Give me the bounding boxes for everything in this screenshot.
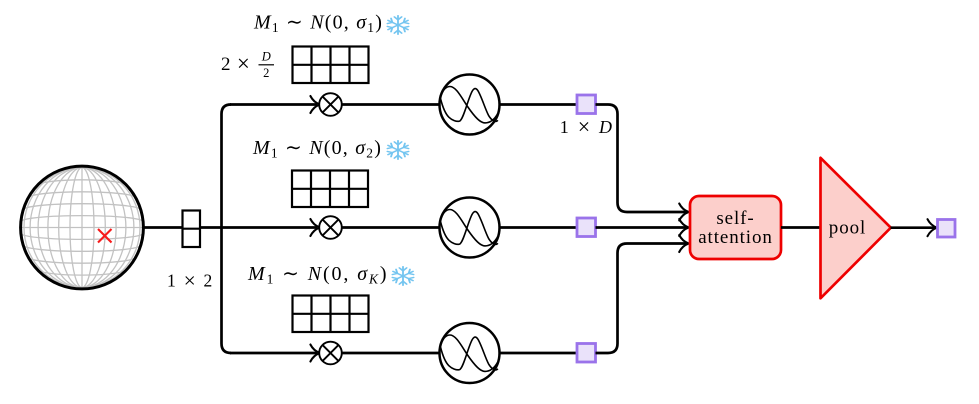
arrowhead into multiplier 2 [310, 219, 319, 236]
multiplier otimes 2 [319, 216, 342, 239]
snowflake 1 [387, 16, 408, 35]
feature square 1 [577, 95, 596, 114]
wire multiplier to sine node 2 [342, 226, 440, 229]
wire bottom branch up into attention [596, 244, 688, 354]
wire vertical bus with rounded corners [222, 105, 232, 354]
arrowhead into attention (middle) [679, 219, 688, 236]
wire sine node 3 to feature square 3 [500, 352, 577, 355]
self-attention block [690, 196, 781, 259]
svg-text:1 × 2: 1 × 2 [167, 269, 214, 293]
multiplier otimes 1 [319, 93, 342, 116]
matrix grid M2 (4x2) [292, 171, 368, 208]
arrowhead into multiplier 3 [310, 345, 319, 362]
arrowhead into output square [928, 219, 937, 236]
svg-text:1 × D: 1 × D [560, 114, 614, 139]
snowflake 3 [392, 267, 413, 286]
svg-text:pool: pool [829, 218, 866, 239]
wire bottom branch to multiplier [230, 352, 317, 355]
sine feature node 1 [440, 75, 500, 135]
wire top branch down into attention [596, 105, 688, 213]
feature square 3 [577, 344, 596, 363]
output feature square [938, 220, 956, 238]
arrowhead into attention (bottom) [679, 235, 688, 252]
svg-text:M1 ∼ N(0, σ1): M1 ∼ N(0, σ1) [253, 12, 383, 36]
svg-text:2 ×: 2 × [221, 51, 251, 76]
wire sine node 1 to feature square 1 [500, 103, 577, 106]
feature square 2 [577, 218, 596, 237]
wire sine node 2 to feature square 2 [500, 226, 577, 229]
wire top branch to multiplier [230, 103, 317, 106]
multiplier otimes 3 [319, 342, 342, 365]
wire bus: cell to vertical splitter [200, 226, 222, 229]
snowflake 2 [387, 141, 408, 160]
svg-text:attention: attention [698, 227, 773, 248]
svg-text:M1 ∼ N(0, σK): M1 ∼ N(0, σK) [247, 263, 388, 287]
label 2 x D/2 [221, 50, 274, 81]
matrix grid M1 (4x2) [293, 47, 369, 84]
wire middle branch into attention [596, 226, 688, 229]
red cross marker x [98, 229, 112, 243]
wire multiplier to sine node 3 [342, 352, 440, 355]
wire multiplier to sine node 1 [342, 103, 440, 106]
sine feature node 2 [440, 198, 500, 258]
1x2 sample cell [183, 211, 201, 248]
svg-text:self-: self- [716, 208, 754, 229]
matrix grid M3 (4x2) [293, 296, 369, 333]
arrowhead into attention (top) [679, 204, 688, 221]
pool triangle [821, 158, 891, 298]
sphere S (wireframe globe) [21, 166, 144, 289]
svg-text:D: D [261, 50, 271, 64]
wire pool to output [891, 226, 936, 229]
wire sphere to 1x2 cell [143, 226, 182, 229]
wire attention to pool [781, 226, 820, 229]
sine feature node 3 [440, 323, 500, 383]
wire middle branch to multiplier [222, 226, 318, 229]
arrowhead into multiplier 1 [310, 96, 319, 113]
svg-text:M1 ∼ N(0, σ2): M1 ∼ N(0, σ2) [252, 137, 382, 161]
svg-text:2: 2 [263, 66, 269, 80]
